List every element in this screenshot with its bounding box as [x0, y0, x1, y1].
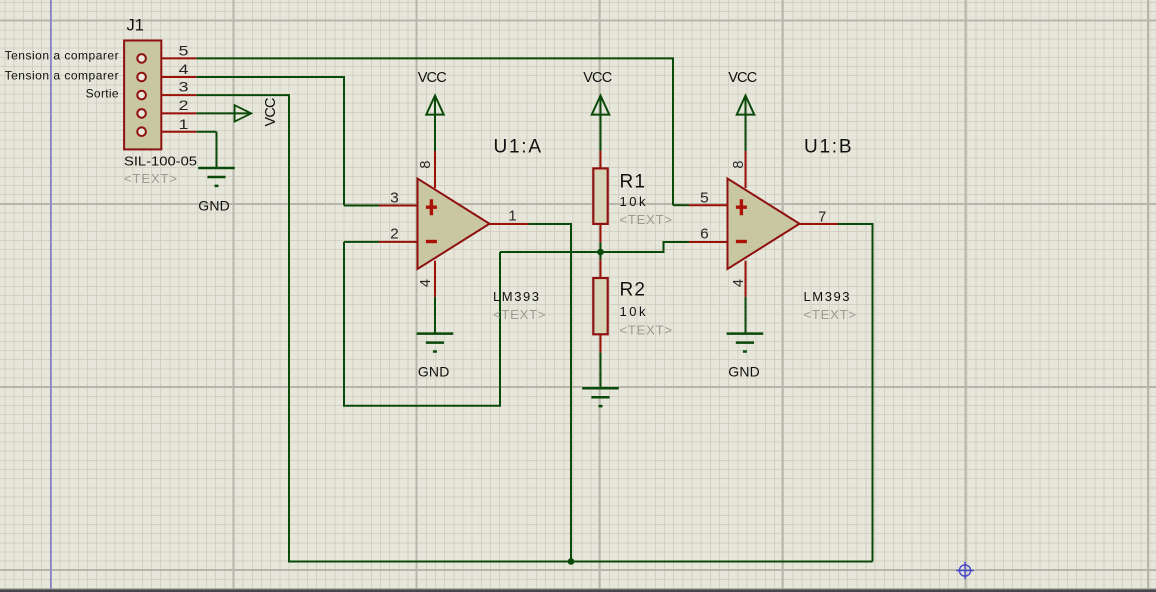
svg-text:VCC: VCC [728, 70, 757, 86]
svg-text:2: 2 [390, 225, 399, 242]
svg-text:<TEXT>: <TEXT> [620, 323, 673, 338]
svg-text:R1: R1 [620, 171, 646, 192]
svg-text:3: 3 [179, 79, 189, 95]
svg-text:<TEXT>: <TEXT> [493, 307, 546, 322]
svg-text:2: 2 [179, 97, 189, 113]
svg-text:1: 1 [508, 209, 516, 225]
svg-text:8: 8 [731, 161, 747, 169]
svg-text:<TEXT>: <TEXT> [804, 307, 857, 322]
svg-text:Tension a comparer: Tension a comparer [5, 49, 119, 63]
svg-text:<TEXT>: <TEXT> [124, 171, 177, 186]
svg-text:U1:A: U1:A [494, 136, 542, 157]
svg-text:GND: GND [418, 364, 450, 380]
svg-text:LM393: LM393 [493, 289, 539, 304]
svg-text:10k: 10k [620, 194, 647, 209]
svg-text:3: 3 [390, 189, 399, 206]
svg-text:4: 4 [179, 61, 189, 77]
svg-text:<TEXT>: <TEXT> [620, 212, 673, 227]
svg-text:R2: R2 [620, 280, 646, 301]
svg-text:1: 1 [179, 116, 189, 132]
svg-text:8: 8 [418, 161, 434, 169]
svg-text:U1:B: U1:B [804, 136, 852, 157]
svg-text:5: 5 [179, 43, 189, 59]
svg-text:VCC: VCC [418, 70, 447, 86]
svg-text:GND: GND [198, 198, 230, 214]
svg-text:LM393: LM393 [804, 289, 850, 304]
svg-text:VCC: VCC [263, 98, 279, 127]
svg-text:7: 7 [818, 209, 826, 226]
svg-text:J1: J1 [127, 17, 144, 35]
svg-text:SIL-100-05: SIL-100-05 [124, 155, 197, 169]
svg-text:6: 6 [700, 225, 709, 242]
svg-text:4: 4 [731, 279, 747, 287]
svg-text:4: 4 [418, 279, 434, 287]
svg-text:VCC: VCC [583, 70, 612, 86]
svg-text:5: 5 [700, 189, 709, 206]
svg-text:GND: GND [728, 364, 760, 380]
svg-text:Tension a comparer: Tension a comparer [5, 68, 119, 82]
svg-text:10k: 10k [620, 304, 647, 319]
svg-text:Sortie: Sortie [86, 86, 119, 100]
